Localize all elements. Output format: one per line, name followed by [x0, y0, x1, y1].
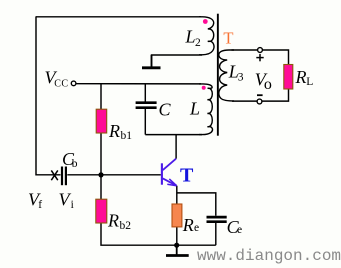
wire tank left lower	[144, 109, 146, 135]
svg-text:L: L	[306, 76, 313, 88]
svg-text:C: C	[159, 100, 172, 120]
inductor L coil	[199, 84, 212, 135]
terminal - output	[257, 99, 262, 104]
svg-text:R: R	[108, 121, 120, 141]
ground bottom	[166, 245, 189, 255]
svg-text:b1: b1	[121, 130, 133, 142]
resistor Rb2	[96, 199, 107, 223]
resistor Rb1	[96, 109, 107, 133]
svg-text:L: L	[189, 98, 200, 118]
minus sign	[257, 94, 263, 96]
wire tank left upper	[144, 84, 146, 102]
svg-text:R: R	[107, 210, 119, 230]
svg-text:3: 3	[238, 72, 244, 84]
wire Rb2 bottom	[101, 223, 216, 245]
transistor T	[162, 159, 177, 186]
wire emitter to Ce	[177, 193, 216, 216]
transistor arrow	[167, 179, 176, 186]
wire Rb1 top	[100, 84, 102, 110]
svg-text:CC: CC	[54, 79, 68, 90]
plus sign	[256, 54, 263, 61]
svg-text:i: i	[71, 199, 74, 211]
resistor Re	[172, 204, 182, 227]
svg-text:e: e	[237, 224, 242, 236]
inductor L2 coil	[199, 17, 214, 55]
svg-text:T: T	[223, 28, 233, 47]
wire emitter down	[176, 186, 178, 205]
wire RL bottom	[262, 89, 288, 101]
svg-text:f: f	[38, 199, 42, 211]
wire Rb1 bottom	[100, 133, 102, 175]
wire Re bottom	[176, 227, 178, 246]
wire Cb to base	[67, 174, 161, 176]
inductor L3 coil	[219, 50, 234, 101]
junction node emitter-ground	[174, 243, 179, 248]
wire tank bottom	[145, 134, 202, 136]
wire outer left	[35, 16, 37, 175]
terminal Vcc	[71, 81, 76, 86]
wire outer top	[36, 16, 201, 18]
wire collector drop	[175, 135, 177, 159]
junction node base	[98, 172, 103, 177]
capacitor C	[136, 103, 157, 108]
resistor RL	[284, 65, 293, 90]
wire feedback/base line	[36, 174, 61, 176]
break mark X	[51, 170, 58, 180]
capacitor Ce	[207, 217, 227, 222]
wire L2 bottom to ground	[152, 55, 203, 67]
ground top	[142, 55, 161, 68]
svg-text:www.diangon.com: www.diangon.com	[197, 247, 341, 265]
svg-text:L: L	[185, 27, 196, 47]
wire L3 top left	[232, 49, 258, 51]
svg-text:R: R	[182, 215, 194, 235]
dot mark on L2	[203, 19, 208, 24]
wire bottom circle to L3	[232, 100, 257, 102]
capacitor Cb	[62, 167, 66, 186]
terminal + output	[258, 48, 263, 53]
transformer core	[217, 14, 219, 136]
dot mark on L	[202, 86, 206, 90]
wire Vcc rail	[76, 83, 201, 85]
svg-text:T: T	[180, 165, 194, 187]
svg-text:o: o	[264, 76, 272, 93]
wire Rb2 top	[100, 175, 102, 200]
svg-text:b2: b2	[120, 220, 132, 232]
svg-text:2: 2	[195, 37, 201, 49]
wire Ce bottom	[215, 223, 217, 245]
svg-text:e: e	[194, 222, 199, 234]
wire L3 top right to RL	[263, 50, 289, 65]
svg-text:R: R	[295, 67, 307, 87]
svg-text:b: b	[72, 158, 78, 170]
